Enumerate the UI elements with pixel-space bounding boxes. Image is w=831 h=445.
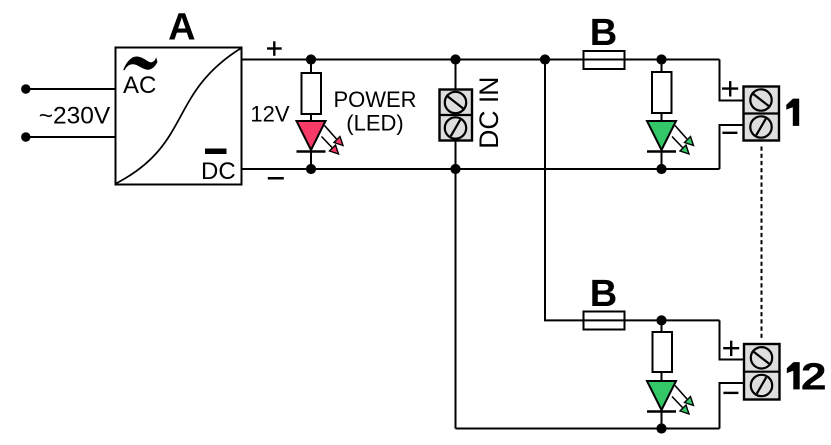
node bottom rail / LED 1 branch xyxy=(656,164,666,174)
svg-text:B: B xyxy=(590,273,617,315)
AC-DC curve xyxy=(116,49,241,184)
svg-text:DC IN: DC IN xyxy=(474,77,504,149)
AC tilde xyxy=(123,56,157,70)
wire bottom run xyxy=(456,428,720,430)
wire to terminal 1 minus xyxy=(720,125,744,169)
wire L input top xyxy=(26,88,116,90)
fuse B upper xyxy=(584,51,625,69)
minus sign terminal 1 xyxy=(722,132,737,134)
minus sign at PSU output xyxy=(268,177,284,180)
svg-text:(LED): (LED) xyxy=(346,110,403,135)
wire L input bottom xyxy=(26,136,116,138)
LED 1 green xyxy=(647,113,676,169)
wire to terminal 12 plus xyxy=(720,320,745,359)
plus sign terminal 12 xyxy=(723,341,739,356)
svg-text:2: 2 xyxy=(801,356,827,398)
dotted continuation line xyxy=(761,147,763,340)
power supply A box xyxy=(116,48,242,185)
LED 12 arrows xyxy=(672,386,694,415)
label 12 xyxy=(787,362,800,389)
svg-text:A: A xyxy=(168,7,195,49)
LED power arrows xyxy=(322,126,344,155)
wire to terminal 12 minus xyxy=(720,383,745,429)
svg-text:B: B xyxy=(590,12,617,54)
wire DC IN vertical xyxy=(455,60,457,170)
LED 12 green xyxy=(647,372,676,429)
svg-text:POWER: POWER xyxy=(333,87,416,112)
resistor LED 1 xyxy=(652,60,672,114)
wire bottom rail xyxy=(242,168,720,170)
label 1 xyxy=(786,99,799,126)
plus sign at PSU output xyxy=(267,41,282,56)
svg-text:DC: DC xyxy=(201,158,236,185)
input terminal bottom xyxy=(21,132,30,141)
node bottom run / LED 12 branch xyxy=(656,423,666,433)
DC bar xyxy=(205,149,227,155)
LED 1 arrows xyxy=(672,126,694,155)
resistor power LED xyxy=(302,60,322,115)
terminal block 12 xyxy=(744,344,780,400)
wire DC IN down to bottom run xyxy=(455,169,457,429)
node bottom rail / DC IN xyxy=(450,164,460,174)
LED power red xyxy=(297,114,326,169)
node bottom rail / power LED branch xyxy=(306,164,316,174)
node lower rail / LED 12 branch xyxy=(656,315,666,325)
input terminal top xyxy=(21,84,30,93)
node top rail / DC IN xyxy=(450,54,460,64)
terminal block DC IN xyxy=(440,90,473,141)
node top rail / branch 2 feed xyxy=(540,54,550,64)
plus sign terminal 1 xyxy=(722,81,738,96)
terminal block 1 xyxy=(744,87,780,141)
fuse B lower xyxy=(584,312,625,330)
wire feed to lower fuse xyxy=(545,60,720,321)
minus sign terminal 12 xyxy=(723,392,738,394)
node top rail / power LED branch xyxy=(306,54,316,64)
resistor LED 12 xyxy=(653,320,673,372)
svg-text:12V: 12V xyxy=(250,101,289,126)
wire to terminal 1 plus xyxy=(720,60,744,101)
node top rail / LED 1 branch xyxy=(656,54,666,64)
wire top rail xyxy=(242,59,720,61)
svg-text:~230V: ~230V xyxy=(39,103,111,130)
svg-text:AC: AC xyxy=(123,72,156,99)
label POWER (LED) xyxy=(333,87,416,135)
